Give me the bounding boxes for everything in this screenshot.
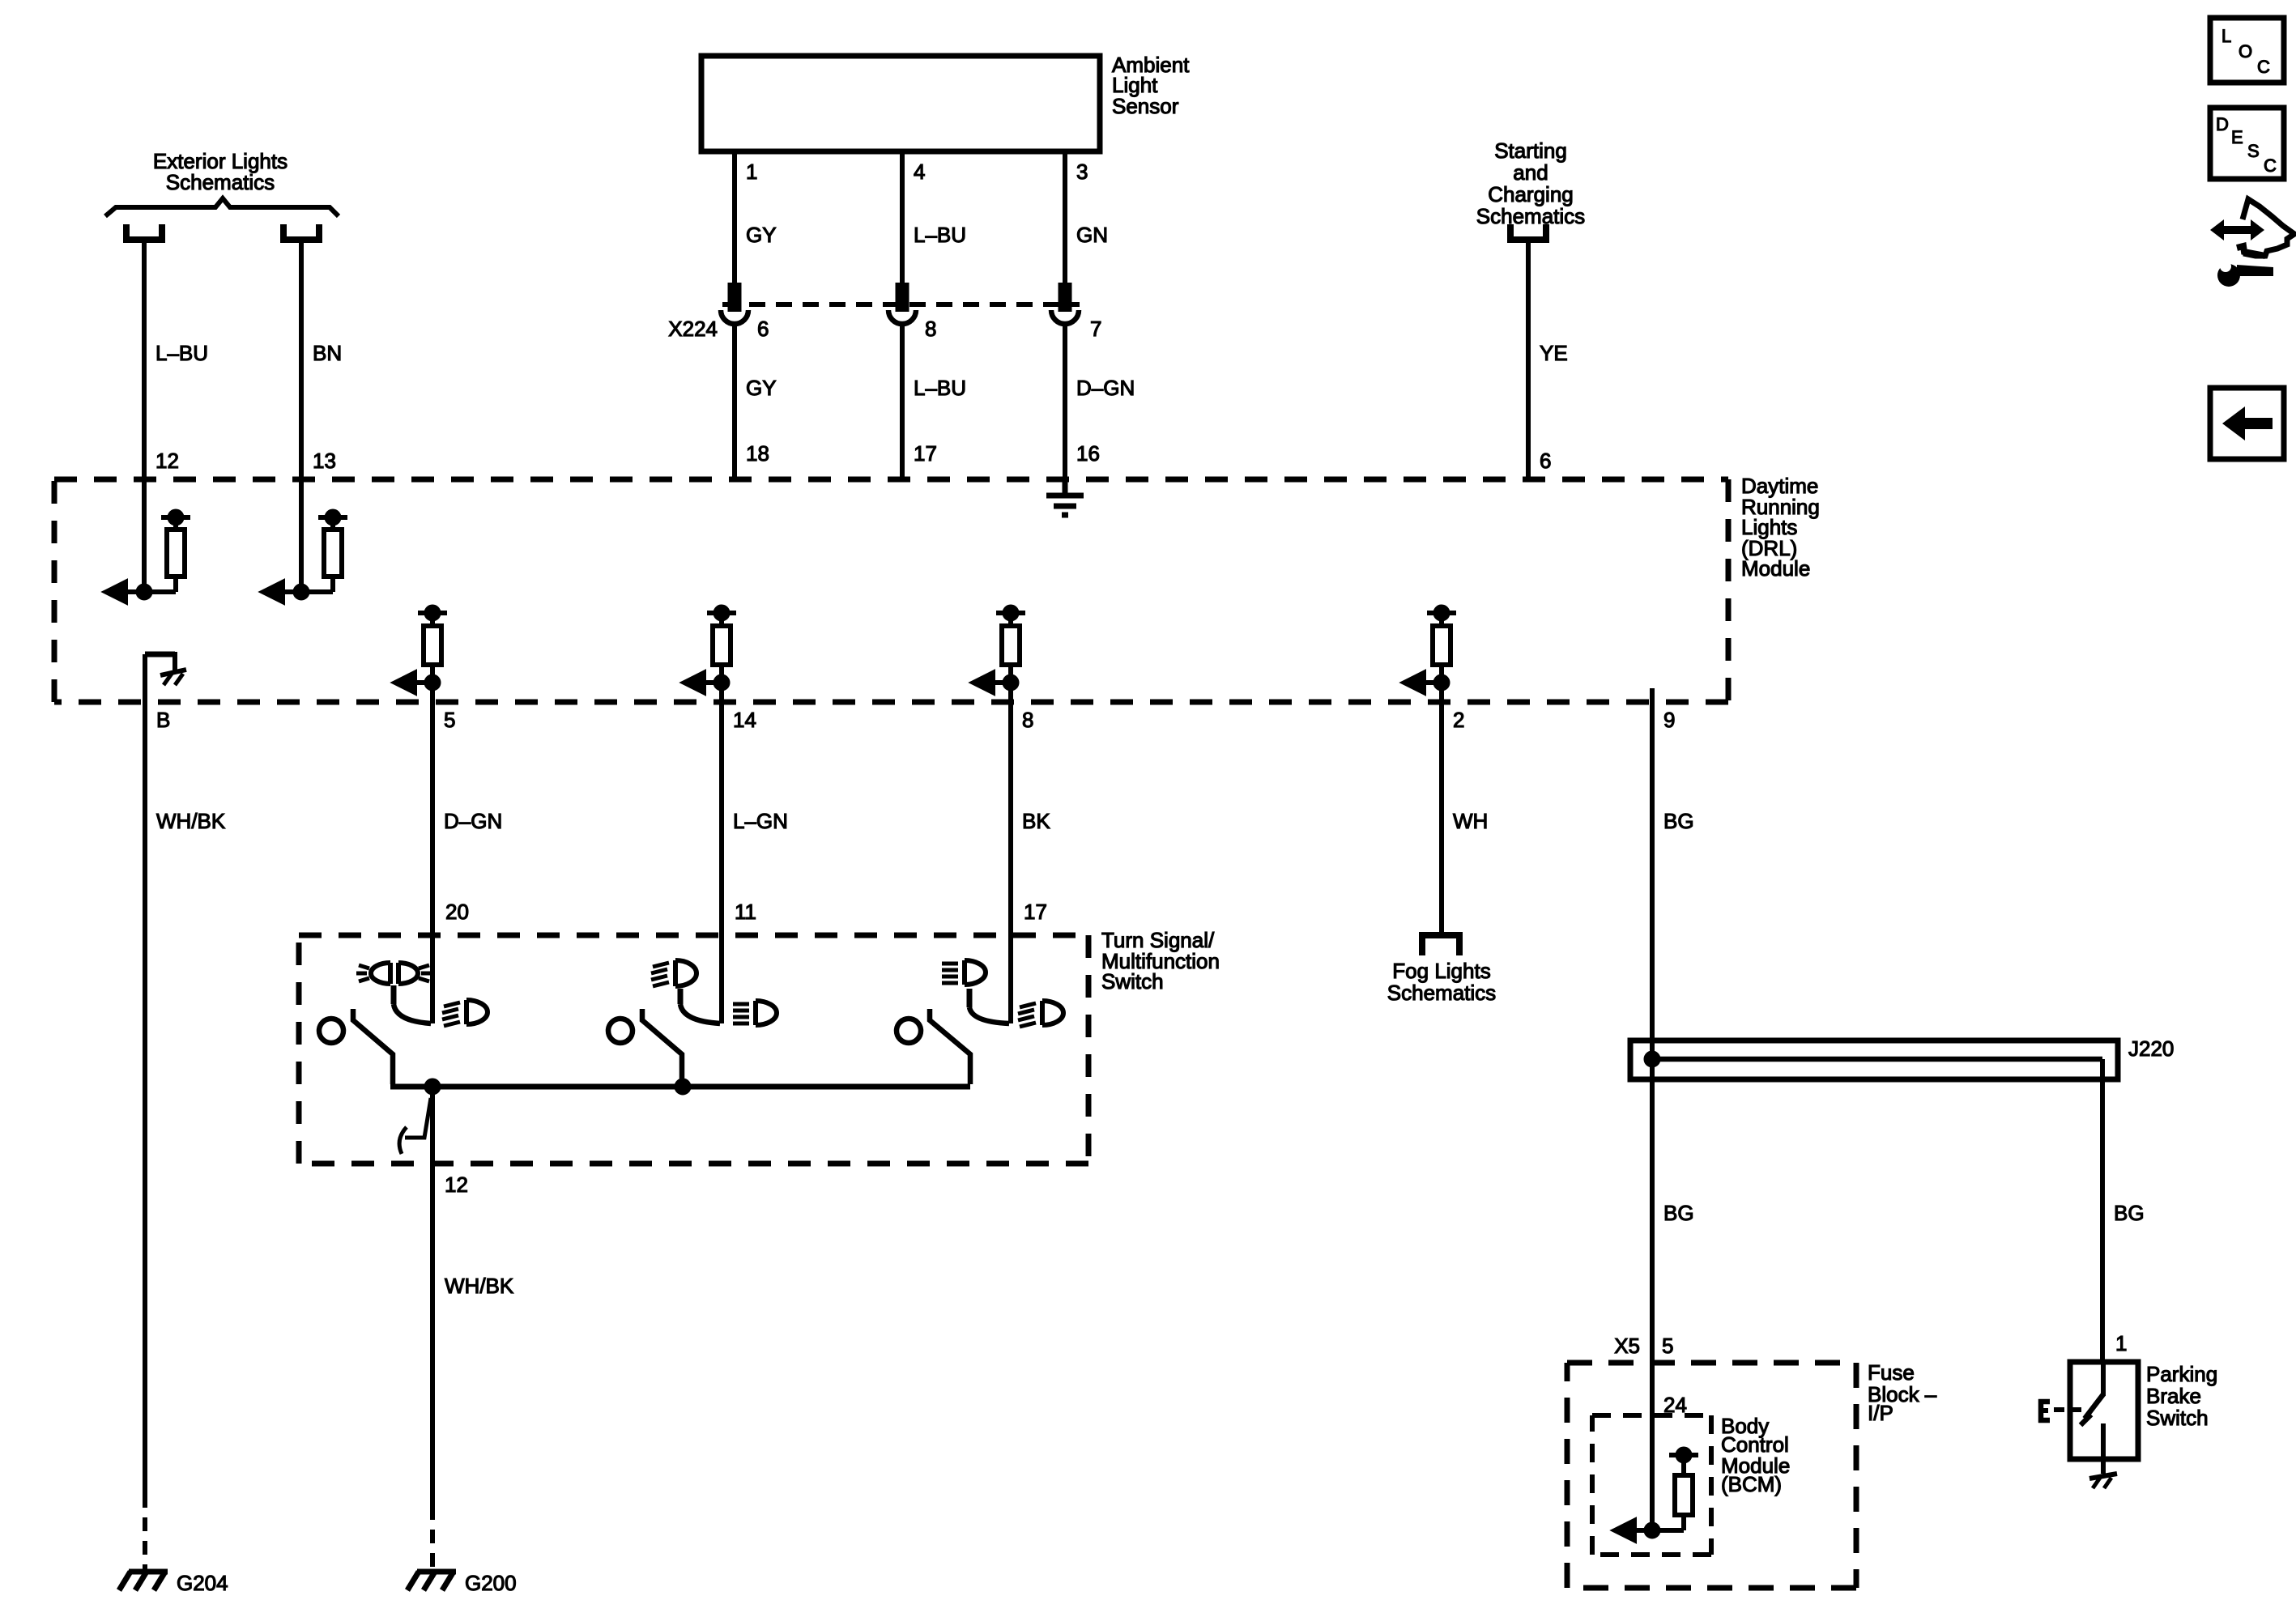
- svg-text:20: 20: [445, 900, 469, 924]
- off-page connector Exterior Lights left: [126, 224, 162, 240]
- turn signal multifunction switch dashed box: [299, 933, 1088, 938]
- svg-text:GY: GY: [746, 223, 777, 247]
- DRL module dashed box right: [1726, 479, 1732, 702]
- svg-text:J220: J220: [2128, 1036, 2174, 1061]
- svg-text:1: 1: [2115, 1331, 2127, 1355]
- ground inside DRL at pin 16: [1046, 479, 1084, 515]
- svg-text:BK: BK: [1022, 809, 1050, 833]
- switch blade section 2: [642, 1009, 682, 1084]
- splice pack J220 internal bus: [1651, 1057, 2102, 1062]
- internal ground DRL pin B: [145, 652, 186, 685]
- connector X224 male pin 1: [731, 285, 739, 309]
- svg-text:9: 9: [1663, 708, 1675, 732]
- dashed link E to parking brake switch: [2054, 1407, 2064, 1412]
- svg-text:6: 6: [757, 317, 769, 341]
- svg-text:7: 7: [1090, 317, 1101, 341]
- switch contact circle section 2: [608, 1019, 633, 1043]
- svg-text:BG: BG: [2114, 1201, 2145, 1225]
- svg-text:24: 24: [1663, 1393, 1687, 1417]
- svg-text:8: 8: [925, 317, 936, 341]
- svg-text:C: C: [2264, 155, 2277, 176]
- headlamp symbol right of wire 17: [1018, 1001, 1063, 1027]
- svg-text:1: 1: [746, 160, 757, 184]
- svg-text:18: 18: [746, 441, 769, 466]
- brace Exterior Lights Schematics: [105, 198, 339, 216]
- svg-text:5: 5: [444, 708, 455, 732]
- DRL module dashed box top: [54, 477, 1728, 483]
- svg-text:Schematics: Schematics: [1476, 204, 1585, 228]
- svg-text:8: 8: [1022, 708, 1033, 732]
- junction node wire 12: [427, 1081, 439, 1093]
- wire switch pin 12 WH/BK to G200: [430, 1087, 435, 1506]
- ground G204: [119, 1572, 168, 1590]
- lamp stem and arc to wire 11: [678, 989, 684, 1004]
- wire L-BU to DRL pin 12: [142, 243, 147, 592]
- off-page connector Starting and Charging: [1510, 224, 1546, 240]
- svg-text:5: 5: [1662, 1334, 1673, 1358]
- svg-text:Switch: Switch: [1101, 969, 1164, 994]
- svg-text:X5: X5: [1614, 1334, 1640, 1358]
- headlamp symbol above wire 17: [942, 960, 986, 985]
- body control module BCM dashed box: [1592, 1413, 1711, 1418]
- svg-text:G204: G204: [177, 1571, 228, 1595]
- connector X224 socket 6: [721, 310, 748, 324]
- wire pin 1 GY: [732, 151, 737, 285]
- svg-text:O: O: [2238, 41, 2252, 62]
- wire YE to DRL pin 6: [1526, 243, 1531, 479]
- svg-text:L: L: [2221, 26, 2231, 46]
- svg-text:12: 12: [445, 1172, 468, 1197]
- svg-text:14: 14: [733, 708, 756, 732]
- svg-text:BG: BG: [1663, 1201, 1694, 1225]
- resistor cluster DRL pin 5: [395, 607, 447, 693]
- splice pack J220 outer box: [1630, 1040, 2118, 1079]
- svg-text:L–GN: L–GN: [733, 809, 788, 833]
- svg-text:Charging: Charging: [1488, 182, 1574, 206]
- svg-text:Parking: Parking: [2146, 1362, 2217, 1386]
- svg-text:BN: BN: [313, 341, 342, 365]
- svg-text:L–BU: L–BU: [914, 376, 966, 400]
- wire DRL pin 14 to switch pin 11: [719, 683, 724, 1023]
- icon DESC box: [2210, 108, 2284, 179]
- off-page connector Fog Lights: [1422, 935, 1459, 955]
- wire DRL pin 8 to switch pin 17: [1008, 683, 1013, 1023]
- svg-text:D–GN: D–GN: [444, 809, 502, 833]
- svg-text:11: 11: [735, 900, 756, 924]
- svg-text:Fog Lights: Fog Lights: [1392, 959, 1490, 983]
- icon wrench: [2217, 257, 2273, 287]
- svg-text:YE: YE: [1540, 341, 1568, 365]
- resistor cluster DRL pin 14: [684, 607, 736, 693]
- wire BN to DRL pin 13: [299, 243, 304, 592]
- off-page connector Exterior Lights right: [283, 224, 319, 240]
- parking brake switch blade: [2101, 1362, 2106, 1396]
- svg-text:16: 16: [1076, 441, 1100, 466]
- svg-text:Schematics: Schematics: [1387, 981, 1496, 1005]
- wire BG right branch to parking brake switch: [2100, 1059, 2105, 1362]
- svg-text:13: 13: [313, 449, 336, 473]
- svg-text:B: B: [156, 708, 170, 732]
- svg-text:G200: G200: [465, 1571, 517, 1595]
- svg-text:C: C: [2257, 57, 2270, 77]
- fuse block I/P dashed box: [1567, 1360, 1856, 1366]
- connector X224 socket 7: [1051, 310, 1079, 324]
- svg-text:and: and: [1513, 160, 1548, 185]
- wire X224-8 to DRL pin 17 L-BU: [900, 323, 905, 479]
- resistor cluster DRL pin 2: [1404, 607, 1456, 693]
- ambient light sensor box: [701, 56, 1100, 151]
- svg-text:17: 17: [1024, 900, 1047, 924]
- headlamp symbol right of wire 11: [733, 1001, 777, 1025]
- icon back arrow box: [2210, 388, 2284, 459]
- svg-text:12: 12: [155, 449, 179, 473]
- svg-text:S: S: [2247, 141, 2260, 161]
- svg-text:E: E: [2231, 127, 2243, 147]
- svg-text:D–GN: D–GN: [1076, 376, 1135, 400]
- ground at parking brake switch: [2089, 1474, 2117, 1488]
- connector X224 male pin 3: [1061, 285, 1070, 309]
- resistor cluster DRL pin 8: [973, 607, 1025, 693]
- svg-text:Sensor: Sensor: [1112, 94, 1179, 118]
- parking brake switch fixed contact to ground: [2101, 1423, 2106, 1474]
- svg-text:I/P: I/P: [1868, 1401, 1893, 1425]
- label E (narrow glyph): [2038, 1399, 2050, 1423]
- svg-text:BG: BG: [1663, 809, 1694, 833]
- resistor cluster inside BCM: [1615, 1449, 1698, 1541]
- lamp stem and arc to wire 17: [967, 989, 973, 1007]
- svg-text:WH/BK: WH/BK: [156, 809, 226, 833]
- svg-text:D: D: [2216, 114, 2229, 134]
- svg-text:Fuse: Fuse: [1868, 1360, 1915, 1385]
- resistor cluster DRL pin 13: [263, 512, 347, 602]
- svg-text:WH/BK: WH/BK: [445, 1274, 514, 1298]
- connector X224 socket 8: [888, 310, 916, 324]
- headlamp symbol above wire 11: [651, 960, 696, 986]
- svg-text:2: 2: [1453, 708, 1464, 732]
- svg-text:Brake: Brake: [2146, 1384, 2201, 1408]
- switch contact circle section 1: [319, 1019, 343, 1043]
- svg-text:3: 3: [1076, 160, 1088, 184]
- junction node section 2 blade: [677, 1081, 689, 1093]
- svg-text:Starting: Starting: [1494, 138, 1567, 163]
- wire X224-7 to DRL pin 16 D-GN: [1063, 323, 1067, 479]
- junction node J220: [1646, 1053, 1659, 1066]
- ground G200: [407, 1572, 456, 1590]
- switch blade section 3: [930, 1009, 970, 1084]
- svg-text:17: 17: [914, 441, 937, 466]
- wire DRL pin B to G204: [143, 654, 147, 1494]
- DRL module dashed box bottom: [54, 700, 1728, 705]
- svg-text:Switch: Switch: [2146, 1406, 2209, 1430]
- svg-text:(BCM): (BCM): [1721, 1472, 1782, 1496]
- parking brake switch box: [2070, 1362, 2138, 1459]
- headlamp symbol right of wire 20: [442, 1000, 488, 1026]
- icon LOC box: [2210, 18, 2284, 83]
- flasher lamp symbol switch section 1: [356, 963, 432, 984]
- svg-text:Schematics: Schematics: [166, 170, 275, 194]
- mechanical linkage hook: [405, 1098, 431, 1138]
- wire DRL pin 2 WH to fog lights: [1439, 683, 1444, 937]
- wire DRL pin 9 BG: [1650, 688, 1655, 1530]
- svg-text:X224: X224: [668, 317, 718, 341]
- wire pin 4 L-BU: [900, 151, 905, 285]
- svg-text:L–BU: L–BU: [914, 223, 966, 247]
- lamp stem and arc to wire 20: [391, 985, 397, 1004]
- svg-text:4: 4: [914, 160, 925, 184]
- svg-text:GY: GY: [746, 376, 777, 400]
- wire DRL pin 5 to switch pin 20: [430, 683, 435, 1023]
- svg-text:L–BU: L–BU: [155, 341, 208, 365]
- DRL module dashed box left: [52, 479, 58, 702]
- svg-text:Module: Module: [1741, 556, 1810, 581]
- connector X224 male pin 4: [898, 285, 907, 309]
- switch contact circle section 3: [897, 1019, 921, 1043]
- switch common bus: [390, 1084, 970, 1090]
- svg-text:WH: WH: [1453, 809, 1488, 833]
- icon hand with double arrow: [2210, 219, 2264, 240]
- svg-text:6: 6: [1540, 449, 1551, 473]
- resistor cluster DRL pin 12: [106, 512, 190, 602]
- svg-text:GN: GN: [1076, 223, 1108, 247]
- switch blade section 1: [353, 1009, 393, 1084]
- wire X224-6 to DRL pin 18 GY: [732, 323, 737, 479]
- wire pin 3 GN: [1063, 151, 1067, 285]
- connector X224 dashed boundary: [722, 302, 1080, 307]
